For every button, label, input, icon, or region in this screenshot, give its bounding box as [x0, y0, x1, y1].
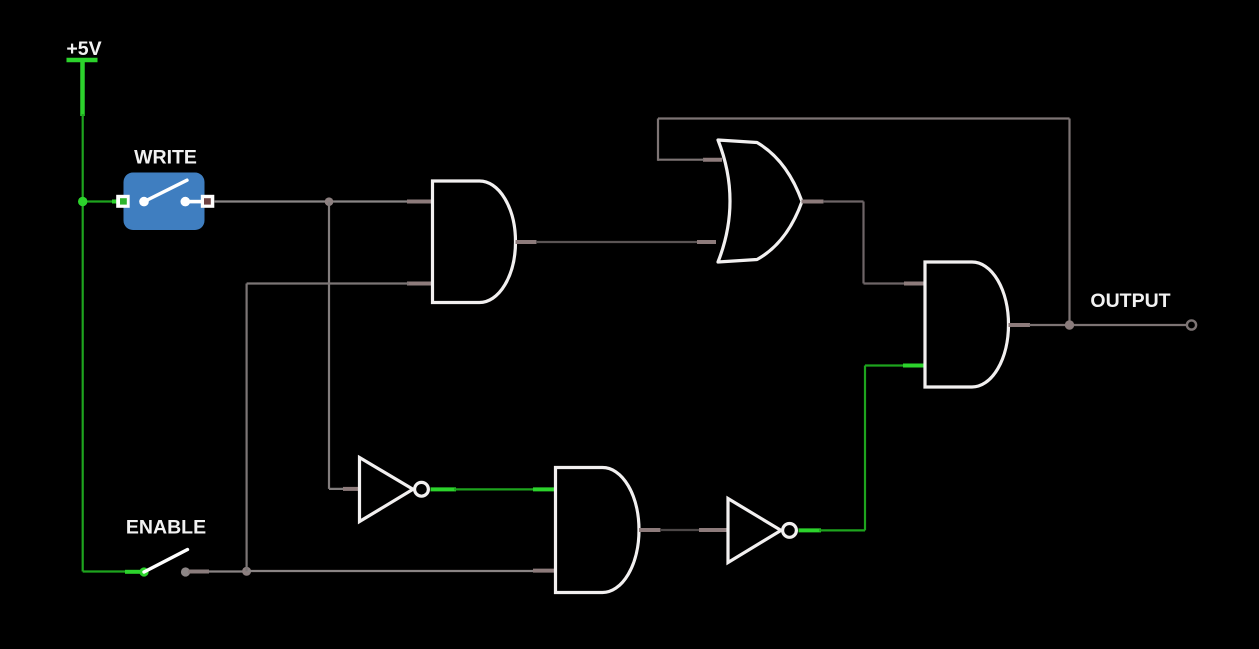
wire NOT1 to AND2 input A	[454, 488, 535, 490]
wire OR1 output vertical	[862, 202, 864, 284]
lead OR1 output pin	[802, 200, 824, 204]
and-gate AND3	[925, 262, 1009, 387]
svg-text:OUTPUT: OUTPUT	[1090, 290, 1170, 312]
lead OR1 input A pin	[703, 158, 722, 162]
switch ENABLE (open)	[139, 550, 190, 577]
junction WRITE net	[325, 197, 334, 206]
wire AND2 output to NOT2	[660, 529, 700, 531]
wire junction down to NOT1	[328, 202, 330, 489]
wire ENABLE to junction	[209, 570, 247, 572]
wire power vertical upper	[82, 114, 84, 202]
wire power vertical lower	[82, 202, 84, 572]
lead AND2 input A pin	[533, 487, 555, 491]
lead AND1 output pin	[516, 240, 537, 244]
lead AND1 input B pin	[407, 282, 431, 286]
lead NOT1 output pin	[431, 487, 457, 491]
svg-text:WRITE: WRITE	[134, 147, 197, 169]
lead AND2 input B pin	[533, 569, 555, 573]
wire to NOT1 input	[329, 488, 346, 490]
wire AND1 output to OR1 input B	[536, 241, 699, 243]
not-gate NOT1	[360, 458, 429, 522]
lead AND3 output pin	[1009, 323, 1031, 327]
lead AND1 input A pin	[407, 200, 431, 204]
lead ENABLE left contact	[125, 570, 141, 574]
wire power to ENABLE	[83, 570, 127, 572]
lead NOT2 output pin	[799, 528, 822, 532]
svg-text:ENABLE: ENABLE	[126, 517, 206, 539]
wire NOT2 output vertical	[864, 366, 866, 531]
svg-text:+5V: +5V	[66, 38, 101, 60]
lead ENABLE right contact	[188, 570, 209, 574]
wire ENABLE to AND2 input B	[247, 570, 535, 572]
lead AND3 input A pin	[904, 282, 925, 286]
wire power to WRITE switch	[83, 200, 120, 202]
lead OR1 input B pin	[697, 240, 716, 244]
terminal OUTPUT	[1187, 320, 1196, 329]
wire to AND3 input A	[864, 282, 907, 284]
wire to AND3 input B	[865, 364, 905, 366]
not-gate NOT2	[728, 499, 796, 563]
wire OR1 output horizontal	[823, 200, 864, 202]
lead NOT1 input pin	[343, 487, 359, 491]
wire feedback OR input A	[658, 159, 704, 161]
power supply +5V	[67, 60, 98, 116]
wire feedback vertical at OR	[657, 119, 659, 161]
or-gate OR1	[718, 140, 802, 262]
lead NOT2 input pin	[699, 528, 727, 532]
wire to AND1 input B	[247, 282, 409, 284]
and-gate AND1	[433, 181, 516, 303]
junction ENABLE net	[242, 567, 251, 576]
and-gate AND2	[556, 468, 640, 593]
wire AND3 output to terminal	[1029, 324, 1187, 326]
wire ENABLE junction up	[246, 284, 248, 572]
switch WRITE (selected, open)	[116, 173, 214, 231]
junction output node	[1065, 320, 1074, 329]
wire NOT2 output horizontal	[819, 529, 865, 531]
wire feedback top horizontal	[658, 117, 1070, 119]
lead WRITE left pin	[112, 200, 122, 204]
wire WRITE output to AND1	[214, 200, 409, 202]
lead AND3 input B pin	[903, 364, 925, 368]
wire feedback right vertical	[1068, 119, 1070, 326]
junction power node	[78, 197, 87, 206]
lead AND2 output pin	[639, 528, 661, 532]
